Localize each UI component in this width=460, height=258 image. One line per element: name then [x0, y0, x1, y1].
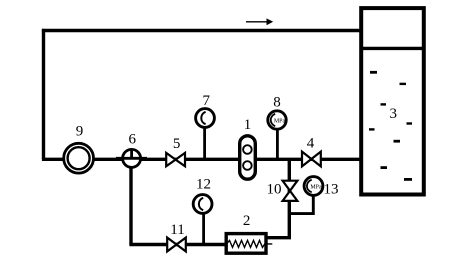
svg-text:3: 3 [390, 106, 398, 122]
gauge 12 [193, 195, 212, 245]
svg-text:9: 9 [76, 123, 84, 139]
wire: main horizontal line [42, 158, 361, 161]
component 6 (three-way cock) [116, 149, 147, 167]
liquid dash 4 [407, 122, 413, 124]
svg-text:5: 5 [173, 136, 181, 152]
gauge 8 [268, 111, 286, 159]
liquid dash 3 [381, 103, 387, 105]
valve 5 [166, 153, 185, 166]
svg-text:MPa: MPa [274, 118, 286, 124]
svg-text:11: 11 [170, 222, 184, 238]
gauge 13 [288, 177, 323, 214]
wire: branch down from main line at junction [266, 159, 290, 238]
valve 4 [302, 152, 321, 167]
svg-text:6: 6 [129, 132, 137, 148]
gauge 7 [196, 109, 215, 159]
svg-text:8: 8 [273, 94, 281, 110]
flow meter 1 [240, 136, 256, 179]
liquid dash 5 [369, 128, 375, 130]
valve 10 [283, 181, 298, 201]
liquid dash 7 [381, 166, 388, 169]
flow direction arrow [246, 18, 273, 25]
svg-text:2: 2 [243, 213, 251, 229]
svg-text:10: 10 [267, 182, 282, 198]
pump 9 [64, 143, 94, 173]
svg-text:4: 4 [307, 135, 315, 151]
heater 2 [226, 234, 272, 254]
svg-text:7: 7 [202, 93, 210, 109]
svg-text:1: 1 [244, 117, 252, 133]
wire: bottom line to heater [129, 243, 227, 246]
liquid dash 2 [400, 83, 407, 85]
svg-text:MPa: MPa [310, 184, 322, 190]
svg-text:13: 13 [324, 182, 339, 198]
svg-text:12: 12 [196, 176, 211, 192]
liquid dash 6 [394, 140, 401, 143]
wire: top pipe to tank [42, 29, 361, 32]
tank 3 [361, 8, 424, 194]
valve 11 [167, 238, 186, 252]
liquid dash 8 [404, 178, 412, 181]
liquid dash 1 [370, 71, 377, 74]
wire: bypass down from component 6 [129, 167, 132, 245]
wire: left riser [42, 29, 45, 159]
